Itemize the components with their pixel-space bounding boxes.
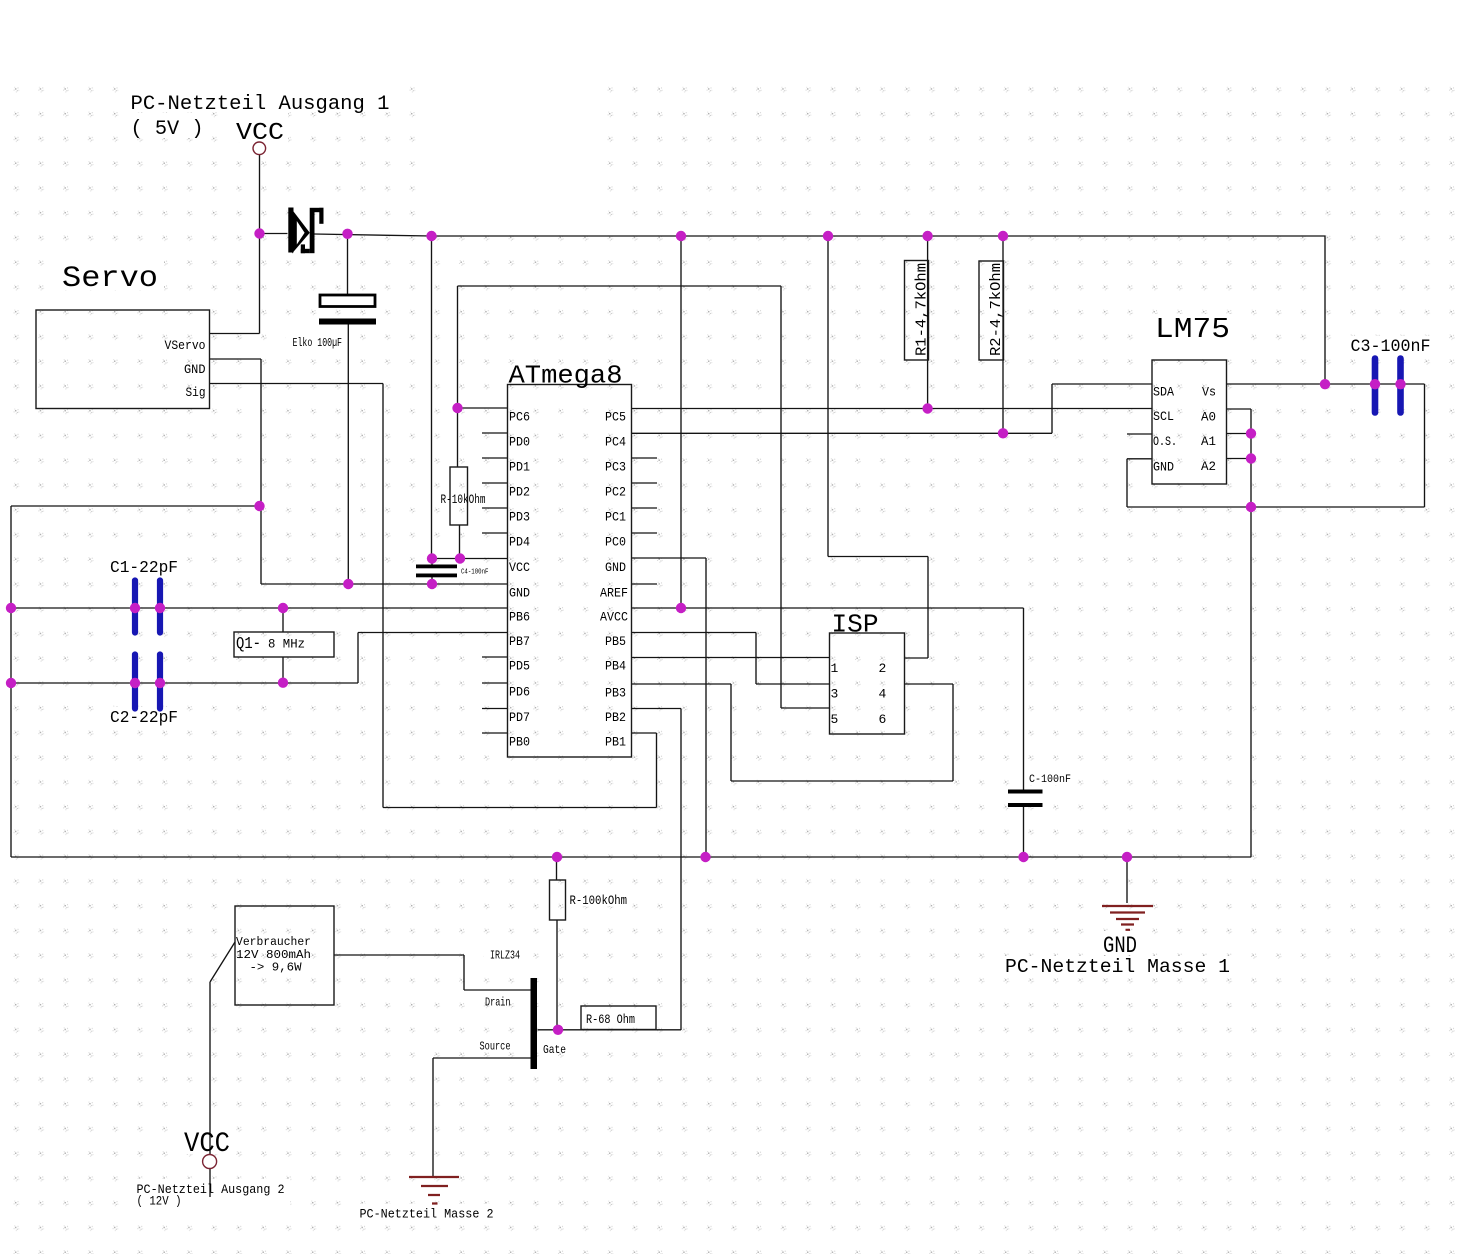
svg-text:R-68 Ohm: R-68 Ohm	[586, 1013, 635, 1027]
svg-text:VCC: VCC	[236, 120, 284, 147]
svg-text:PB0: PB0	[509, 735, 530, 750]
svg-text:Q1-: Q1-	[236, 635, 261, 654]
svg-text:Drain: Drain	[485, 996, 511, 1010]
svg-text:ISP: ISP	[832, 610, 879, 640]
svg-text:PC-Netzteil Masse 1: PC-Netzteil Masse 1	[1005, 956, 1230, 978]
svg-text:PB6: PB6	[509, 610, 530, 625]
svg-text:SCL: SCL	[1153, 409, 1174, 424]
svg-text:Servo: Servo	[62, 262, 158, 296]
svg-text:PC-Netzteil Masse 2: PC-Netzteil Masse 2	[360, 1208, 494, 1222]
svg-text:PD4: PD4	[509, 535, 530, 550]
svg-text:PC4: PC4	[605, 435, 626, 450]
svg-text:R-100kOhm: R-100kOhm	[570, 894, 628, 908]
svg-text:4: 4	[879, 687, 887, 702]
svg-text:Verbraucher: Verbraucher	[236, 936, 311, 949]
svg-text:PD5: PD5	[509, 659, 530, 674]
svg-text:C1-22pF: C1-22pF	[110, 559, 178, 578]
svg-text:GND: GND	[1103, 933, 1137, 959]
svg-text:PC6: PC6	[509, 410, 530, 425]
svg-text:PC5: PC5	[605, 410, 626, 425]
svg-text:VCC: VCC	[184, 1129, 230, 1160]
svg-text:Sig: Sig	[186, 385, 206, 400]
svg-text:VServo: VServo	[165, 338, 206, 353]
svg-text:PC1: PC1	[605, 510, 626, 525]
svg-text:1: 1	[831, 661, 839, 676]
svg-text:Gate: Gate	[543, 1043, 566, 1057]
svg-text:PD6: PD6	[509, 685, 530, 700]
svg-text:R1-4,7kOhm: R1-4,7kOhm	[914, 263, 931, 356]
svg-text:( 12V ): ( 12V )	[137, 1195, 182, 1209]
svg-text:-> 9,6W: -> 9,6W	[250, 962, 302, 975]
svg-text:PD2: PD2	[509, 485, 530, 500]
svg-text:PC3: PC3	[605, 460, 626, 475]
svg-text:( 5V ): ( 5V )	[131, 118, 204, 141]
svg-text:C2-22pF: C2-22pF	[110, 709, 178, 728]
svg-text:GND: GND	[605, 560, 626, 575]
svg-text:A0: A0	[1201, 410, 1216, 425]
svg-text:O.S.: O.S.	[1153, 434, 1177, 449]
svg-text:PD7: PD7	[509, 710, 530, 725]
svg-text:2: 2	[879, 661, 887, 676]
svg-text:PB2: PB2	[605, 710, 626, 725]
svg-text:PD0: PD0	[509, 435, 530, 450]
svg-text:SDA: SDA	[1153, 385, 1174, 400]
svg-text:Source: Source	[480, 1040, 511, 1054]
svg-text:ATmega8: ATmega8	[509, 361, 623, 391]
svg-text:PC-Netzteil Ausgang 1: PC-Netzteil Ausgang 1	[131, 93, 390, 116]
svg-text:PB7: PB7	[509, 634, 530, 649]
svg-text:Elko 100µF: Elko 100µF	[293, 336, 343, 350]
svg-text:C-100nF: C-100nF	[1029, 774, 1071, 786]
svg-text:PB4: PB4	[605, 659, 626, 674]
svg-text:GND: GND	[184, 362, 206, 377]
svg-text:LM75: LM75	[1155, 313, 1230, 346]
svg-text:C3-100nF: C3-100nF	[1351, 337, 1431, 357]
svg-text:PD1: PD1	[509, 460, 530, 475]
svg-text:VCC: VCC	[509, 560, 530, 575]
svg-text:GND: GND	[509, 586, 530, 601]
svg-text:PD3: PD3	[509, 510, 530, 525]
svg-text:PC2: PC2	[605, 485, 626, 500]
svg-text:IRLZ34: IRLZ34	[490, 949, 520, 963]
svg-text:Vs: Vs	[1202, 385, 1216, 400]
svg-text:C4-100nF: C4-100nF	[461, 569, 489, 577]
svg-text:6: 6	[879, 712, 887, 727]
svg-text:A1: A1	[1201, 434, 1216, 449]
svg-text:AVCC: AVCC	[600, 610, 628, 625]
svg-text:PB3: PB3	[605, 686, 626, 701]
svg-text:12V 800mAh: 12V 800mAh	[236, 949, 311, 962]
svg-text:R-10kOhm: R-10kOhm	[441, 493, 486, 507]
svg-text:5: 5	[831, 712, 839, 727]
svg-text:PB5: PB5	[605, 634, 626, 649]
svg-text:AREF: AREF	[600, 586, 628, 601]
svg-text:R2-4,7kOhm: R2-4,7kOhm	[988, 263, 1005, 356]
svg-text:PB1: PB1	[605, 735, 626, 750]
svg-text:GND: GND	[1153, 460, 1174, 475]
svg-text:8 MHz: 8 MHz	[268, 638, 305, 652]
svg-text:A2: A2	[1201, 459, 1216, 474]
svg-text:3: 3	[831, 687, 839, 702]
svg-text:PC0: PC0	[605, 535, 626, 550]
